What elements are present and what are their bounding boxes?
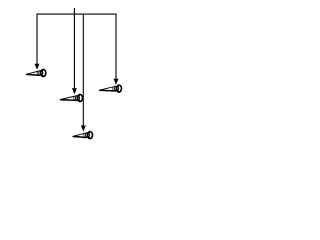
screw icon 3 xyxy=(73,132,93,139)
screw icon 4 xyxy=(99,85,121,92)
arrowhead 4 xyxy=(114,79,119,85)
wire: mid-right drop xyxy=(82,14,84,126)
arrowhead 1 xyxy=(35,64,40,70)
arrowhead 2 xyxy=(72,88,77,94)
wire: right drop xyxy=(115,14,117,80)
wire: top stub xyxy=(73,8,75,14)
screw icon 1 xyxy=(26,69,46,76)
wire: horizontal bus xyxy=(37,13,117,15)
wire: mid-left drop xyxy=(73,14,75,89)
wire: left drop xyxy=(36,14,38,65)
arrowhead 3 xyxy=(81,126,86,132)
screw icon 2 xyxy=(60,94,82,101)
